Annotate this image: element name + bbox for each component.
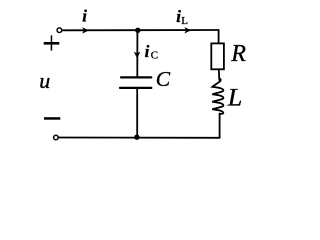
capacitor C bottom plate xyxy=(120,87,151,89)
svg-text:R: R xyxy=(230,41,246,67)
node bottom junction xyxy=(134,135,139,140)
terminal top-left xyxy=(57,28,62,33)
terminal bottom-left xyxy=(54,135,59,140)
arrowhead current i xyxy=(82,27,89,33)
svg-text:C: C xyxy=(151,50,158,62)
node top junction xyxy=(135,28,140,33)
minus sign of source xyxy=(44,117,60,120)
wire resistor to inductor xyxy=(218,69,221,80)
svg-text:i: i xyxy=(82,6,87,25)
capacitor C top plate xyxy=(121,76,151,78)
resistor R box xyxy=(211,43,224,69)
wire right vertical to resistor xyxy=(218,30,220,44)
svg-text:L: L xyxy=(227,84,243,111)
arrowhead current iC xyxy=(134,52,140,59)
svg-text:i: i xyxy=(145,42,150,61)
svg-text:u: u xyxy=(39,68,50,93)
arrowhead current iL xyxy=(184,27,191,33)
wire top horizontal xyxy=(62,29,219,31)
wire inductor to bottom xyxy=(219,114,221,138)
wire bottom horizontal xyxy=(58,137,219,139)
inductor L coil xyxy=(212,78,223,113)
wire capacitor branch upper xyxy=(136,30,138,76)
svg-text:L: L xyxy=(181,15,188,27)
svg-text:C: C xyxy=(156,67,171,91)
wire capacitor branch lower xyxy=(136,89,138,138)
plus sign of source xyxy=(44,42,60,45)
